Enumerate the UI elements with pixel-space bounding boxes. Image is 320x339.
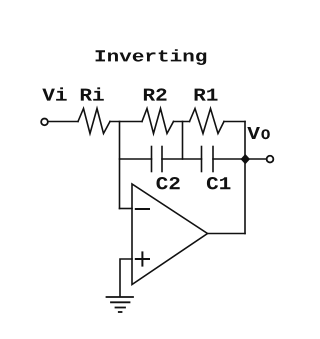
label C1	[207, 177, 231, 189]
resistor R1	[190, 109, 225, 134]
capacitor C1	[202, 147, 214, 172]
wire op-amp output	[208, 233, 246, 235]
minus symbol	[136, 208, 149, 210]
ground	[107, 297, 134, 312]
resistor Ri	[78, 109, 110, 134]
resistor R2	[142, 109, 174, 134]
wire output vertical (R1 corner down to op-amp output)	[244, 122, 246, 234]
wire C1 to output node	[213, 158, 266, 160]
wire R2 to R1	[174, 121, 190, 123]
label Vi	[42, 87, 66, 100]
wire node A to C2	[120, 158, 152, 160]
label R1	[195, 89, 218, 101]
label Ri	[81, 87, 104, 100]
wire C2 to C1	[162, 158, 202, 160]
output terminal Vo	[267, 156, 274, 163]
label C2	[157, 177, 180, 189]
node A junction vertical (inverting input branch)	[119, 122, 121, 209]
label R2	[144, 88, 167, 100]
wire noninverting input	[120, 259, 132, 297]
output node dot	[241, 155, 249, 164]
op-amp U1	[132, 184, 208, 285]
wire input to Ri	[49, 121, 78, 123]
plus symbol	[136, 252, 149, 265]
wire Ri to R2	[110, 121, 142, 123]
input terminal Vi	[41, 119, 48, 126]
wire inverting input	[120, 208, 133, 210]
capacitor C2	[152, 147, 163, 172]
title Inverting	[96, 49, 207, 65]
label Vo	[247, 127, 269, 139]
wire R1 to output corner	[224, 121, 245, 123]
node B junction vertical (R2/R1 to C2/C1)	[182, 122, 184, 160]
